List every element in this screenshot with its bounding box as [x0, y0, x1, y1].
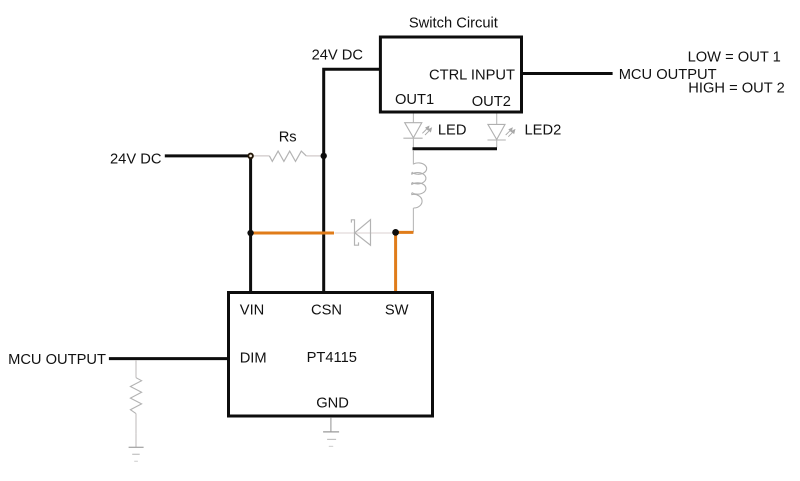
wire (orange): SW node stub to inductor bottom — [396, 231, 414, 234]
LED2 emission arrows — [506, 128, 515, 137]
svg-text:Rs: Rs — [279, 129, 297, 145]
resistor Rs lead (right) — [306, 155, 322, 157]
svg-text:PT4115: PT4115 — [307, 350, 357, 366]
svg-text:CTRL INPUT: CTRL INPUT — [429, 68, 515, 84]
svg-text:GND: GND — [316, 396, 349, 412]
LED1 (LED) triangle — [405, 123, 422, 138]
wire: LED cathode bus bar — [413, 147, 498, 150]
svg-text:SW: SW — [385, 302, 409, 318]
svg-text:24V DC: 24V DC — [312, 48, 364, 64]
inductor L1 lead (top, from cathode bus) — [412, 150, 414, 164]
svg-text:Switch Circuit: Switch Circuit — [409, 15, 498, 31]
svg-text:HIGH = OUT 2: HIGH = OUT 2 — [688, 80, 784, 96]
GND pin lead of PT4115 — [330, 418, 332, 432]
junction dot: VIN / orange node — [247, 230, 253, 236]
LED2 cathode lead — [496, 140, 498, 148]
junction dot: SW node — [392, 229, 399, 236]
wire (orange): SW node down to SW pin — [394, 232, 397, 292]
ground symbol (DIM pulldown) — [129, 447, 144, 461]
wire from input node down to VIN pin — [249, 156, 252, 293]
LED2 anode lead from OUT2 — [496, 114, 498, 125]
svg-text:24V DC: 24V DC — [110, 151, 162, 167]
resistor R1 lead (top, from DIM wire) — [135, 360, 137, 378]
diode D1 schottky cathode bar — [351, 220, 358, 245]
wire stub to ground (left) — [135, 434, 137, 447]
diode D1 triangle (points left) — [355, 220, 371, 246]
LED1 emission arrows — [422, 126, 431, 135]
wire CTRL INPUT to MCU OUTPUT — [522, 72, 613, 75]
resistor Rs lead (left) — [252, 155, 269, 157]
junction dot: Rs output on 24V rail — [321, 153, 327, 159]
svg-text:LED2: LED2 — [525, 123, 562, 139]
LED1 cathode lead — [412, 138, 414, 147]
resistor R1 lead (bottom) — [135, 414, 137, 434]
LED1 cathode bar — [403, 137, 422, 139]
svg-text:VIN: VIN — [240, 302, 264, 318]
svg-text:LOW = OUT 1: LOW = OUT 1 — [688, 50, 781, 66]
svg-text:OUT1: OUT1 — [395, 92, 434, 108]
svg-text:MCU OUTPUT: MCU OUTPUT — [8, 352, 106, 368]
wire 24V DC input (left) — [165, 154, 251, 157]
wire 24V DC rail: top corner into switch box and down to CSN pin — [324, 69, 381, 292]
switch circuit block — [380, 37, 521, 112]
wire (orange): VIN node to diode cathode — [251, 232, 334, 235]
LED1 anode lead from OUT1 — [412, 114, 414, 123]
resistor R1 body (DIM pulldown) — [130, 378, 141, 414]
wire (light) through freewheel diode — [335, 232, 394, 234]
svg-text:CSN: CSN — [311, 302, 342, 318]
LED2 cathode bar — [488, 139, 506, 141]
PT4115 regulator box U1 — [229, 293, 433, 417]
inductor L1 lead (bottom) — [412, 208, 414, 232]
wire: MCU OUTPUT to DIM pin — [109, 357, 229, 360]
ground symbol (PT4115 GND) — [323, 432, 339, 447]
resistor Rs body — [269, 151, 306, 161]
svg-text:DIM: DIM — [240, 351, 267, 367]
svg-text:OUT2: OUT2 — [472, 94, 511, 110]
svg-text:LED: LED — [438, 123, 467, 139]
junction: open node circle at Rs input — [248, 154, 253, 159]
LED2 triangle — [488, 124, 505, 139]
inductor L1 coil — [412, 163, 427, 208]
